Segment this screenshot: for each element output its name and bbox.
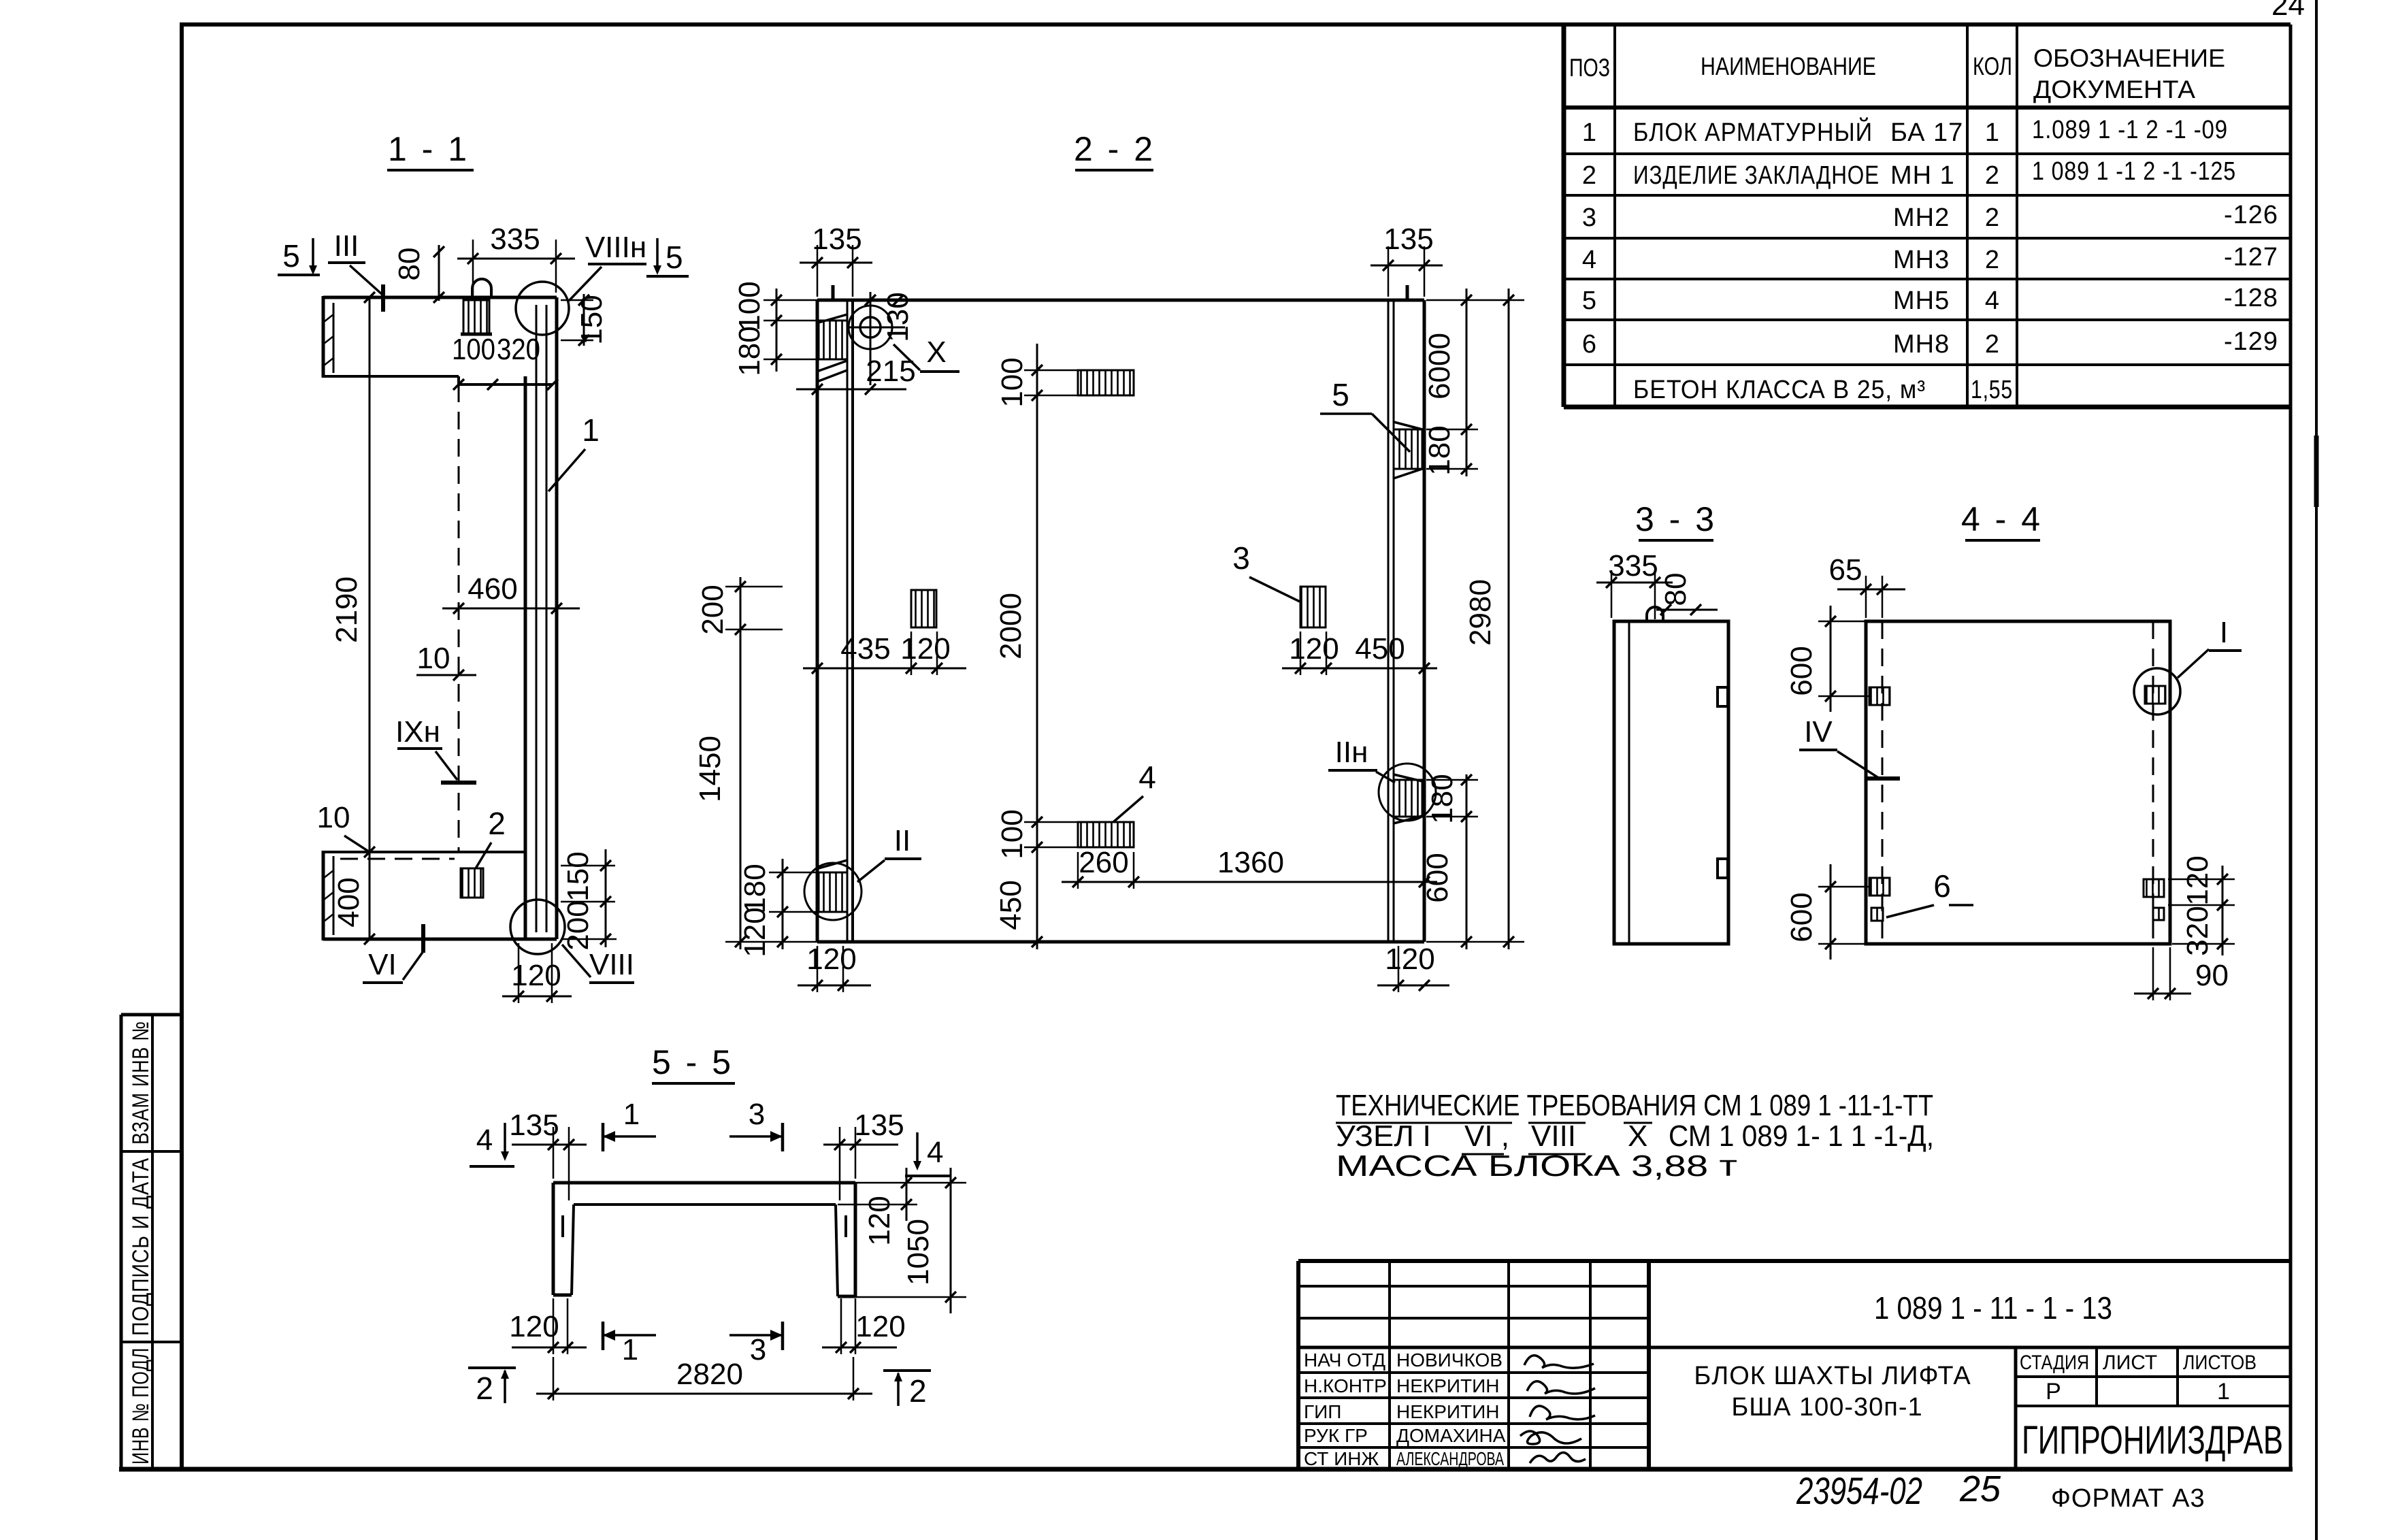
wall rebar line 1 — [536, 305, 538, 932]
svg-text:МН5: МН5 — [1893, 286, 1950, 315]
embedded plate MN1 top hatched — [463, 300, 489, 334]
svg-text:260: 260 — [1079, 846, 1128, 879]
svg-text:2: 2 — [909, 1373, 927, 1409]
svg-text:3: 3 — [1582, 203, 1597, 232]
svg-text:НЕКРИТИН: НЕКРИТИН — [1396, 1375, 1499, 1396]
sheet frame bottom border — [119, 1467, 2293, 1472]
table row 4 — [1582, 243, 2278, 274]
svg-text:БЛОК АРМАТУРНЫЙ: БЛОК АРМАТУРНЫЙ — [1633, 116, 1873, 147]
svg-text:НОВИЧКОВ: НОВИЧКОВ — [1396, 1349, 1503, 1371]
title block row a — [1298, 1285, 1649, 1288]
svg-text:180: 180 — [738, 864, 772, 913]
dim 150 right top — [561, 294, 608, 346]
dim 135 top left of 5-5 — [509, 1109, 587, 1200]
svg-text:5: 5 — [282, 238, 300, 274]
dim 460 — [442, 572, 580, 614]
svg-text:435: 435 — [840, 632, 890, 666]
svg-text:100: 100 — [996, 809, 1029, 859]
title block row 3 line — [1298, 1422, 1649, 1425]
svg-text:ФОРМАТ А3: ФОРМАТ А3 — [2051, 1484, 2205, 1513]
svg-text:135: 135 — [812, 223, 861, 256]
svg-text:24: 24 — [2271, 0, 2305, 22]
stadia header underline — [2016, 1375, 2291, 1378]
svg-text:НАИМЕНОВАНИЕ: НАИМЕНОВАНИЕ — [1701, 52, 1876, 80]
svg-text:2: 2 — [1985, 203, 2000, 232]
svg-text:4: 4 — [927, 1136, 943, 1169]
table row 1 — [1582, 116, 2228, 147]
underline of word — [1336, 1122, 1512, 1124]
4-4 detail circle I — [2134, 668, 2180, 715]
embedded plate bottom middle — [1078, 822, 1134, 847]
table row 5 — [1582, 284, 2278, 315]
svg-text:3 - 3: 3 - 3 — [1635, 500, 1717, 538]
svg-text:2000: 2000 — [994, 593, 1028, 659]
svg-text:5: 5 — [666, 240, 683, 275]
svg-text:2: 2 — [476, 1371, 493, 1406]
dim 100 320 — [452, 333, 558, 390]
svg-text:ТЕХНИЧЕСКИЕ ТРЕБОВАНИЯ СМ 1: ТЕХНИЧЕСКИЕ ТРЕБОВАНИЯ СМ 1 089 1 -11-1-… — [1336, 1089, 1933, 1122]
section mark 3 bottom — [729, 1322, 783, 1366]
svg-text:МН2: МН2 — [1893, 203, 1950, 232]
dim 100 180 left stack — [733, 281, 819, 376]
svg-text:III: III — [334, 229, 359, 263]
section mark 3 top — [729, 1098, 783, 1151]
dim 200 1450 left stack — [693, 577, 817, 949]
svg-text:4 - 4: 4 - 4 — [1961, 500, 2043, 538]
scan edge vertical line right — [2315, 0, 2318, 1540]
right wall inner line b — [1393, 300, 1395, 942]
dim 2820 bottom of 5-5 — [536, 1357, 872, 1400]
svg-text:5: 5 — [1332, 377, 1349, 412]
svg-text:600: 600 — [1785, 892, 1818, 942]
svg-text:II: II — [894, 824, 910, 857]
channel left leg inner — [572, 1205, 574, 1295]
top left embed wedge — [819, 314, 847, 381]
signature squiggle 1 — [1524, 1356, 1594, 1368]
section mark 5 top right — [646, 238, 689, 276]
label 4 with leader — [1113, 759, 1156, 822]
signature squiggle 5 — [1530, 1452, 1586, 1463]
svg-text:БЕТОН КЛАССА В 25, м³: БЕТОН КЛАССА В 25, м³ — [1633, 376, 1926, 404]
svg-text:100: 100 — [452, 333, 495, 366]
node II marker — [857, 824, 921, 882]
label 3 with leader — [1232, 540, 1300, 602]
dim 120 bottom left of 2-2 — [798, 943, 871, 992]
svg-text:НАЧ ОТД: НАЧ ОТД — [1304, 1349, 1385, 1371]
dim 135 top left — [800, 223, 872, 297]
svg-text:VI: VI — [368, 948, 397, 981]
sheet frame right border — [2289, 24, 2293, 1469]
top flange bottom edge step — [459, 376, 553, 384]
sheet frame top border — [180, 22, 2291, 27]
svg-text:120: 120 — [738, 907, 772, 957]
underline VI — [1462, 1153, 1504, 1156]
view 4-4 title underline — [1965, 539, 2040, 542]
signature squiggle 4 — [1520, 1431, 1581, 1444]
channel left leg cap — [553, 1294, 572, 1297]
channel right leg inner — [836, 1205, 838, 1296]
parts table row line 5 — [1564, 318, 2291, 321]
svg-text:МН 1: МН 1 — [1890, 161, 1955, 190]
svg-text:100: 100 — [733, 281, 766, 331]
embedded plate MN1 bottom cap — [461, 333, 492, 336]
svg-text:2: 2 — [1985, 330, 2000, 359]
svg-text:1: 1 — [622, 1333, 638, 1366]
svg-text:135: 135 — [509, 1109, 559, 1142]
sheet frame left border — [180, 24, 184, 1469]
svg-text:ПОДПИСЬ И ДАТА: ПОДПИСЬ И ДАТА — [128, 1158, 154, 1336]
svg-text:Н.КОНТР: Н.КОНТР — [1304, 1375, 1387, 1396]
svg-text:135: 135 — [1383, 223, 1433, 256]
title block col divider 3 — [1589, 1261, 1592, 1469]
node I marker — [2178, 616, 2242, 678]
node X marker — [893, 335, 959, 372]
panel bottom edge — [817, 940, 1424, 944]
svg-text:VI ,: VI , — [1464, 1119, 1509, 1153]
svg-text:СТАДИЯ: СТАДИЯ — [2020, 1351, 2089, 1374]
leader label 1 — [548, 412, 600, 491]
section mark 1 top — [603, 1098, 656, 1151]
top flange top edge — [323, 296, 557, 299]
svg-text:6000: 6000 — [1423, 333, 1456, 399]
svg-text:3: 3 — [749, 1098, 765, 1131]
dim 335 of 3-3 — [1596, 549, 1673, 619]
dim 80 of 3-3 rotated — [1656, 573, 1718, 615]
dashed interior corner line vertical — [458, 384, 460, 852]
parts table bottom line — [1564, 405, 2291, 410]
bottom flange left end outer — [322, 851, 325, 940]
detail circle bottom — [510, 900, 565, 954]
overline VI — [1462, 1122, 1504, 1124]
svg-text:90: 90 — [2195, 959, 2229, 992]
left stamp strip top line — [121, 1013, 182, 1017]
scan edge thick segment — [2314, 436, 2319, 507]
rebar tick top right — [1406, 285, 1409, 300]
dim 215 — [796, 355, 916, 395]
svg-text:БША 100-30п-1: БША 100-30п-1 — [1731, 1393, 1922, 1422]
dim 135 top right of 5-5 — [823, 1109, 904, 1200]
dim 6000 right top rotated — [1423, 289, 1478, 476]
section mark 2 bottom left — [468, 1368, 516, 1406]
node IIn circle bottom right — [1379, 764, 1436, 823]
channel outer top edge — [553, 1181, 855, 1185]
svg-text:2980: 2980 — [1464, 579, 1497, 646]
svg-text:120: 120 — [855, 1310, 905, 1343]
svg-text:ИЗДЕЛИЕ ЗАКЛАДНОЕ: ИЗДЕЛИЕ ЗАКЛАДНОЕ — [1633, 161, 1880, 190]
table row 3 — [1582, 201, 2278, 232]
channel right leg outer — [854, 1183, 857, 1296]
svg-text:1: 1 — [582, 412, 600, 448]
dim 10 lower left — [317, 801, 370, 852]
title block row 1 line — [1298, 1371, 1649, 1374]
left wall inner line a — [847, 300, 849, 942]
right wall inner line a — [1388, 300, 1390, 942]
4-4 small plate right — [2153, 908, 2164, 920]
dim 2980 right rotated — [1426, 289, 1524, 949]
left stamp strip outer line — [120, 1015, 123, 1469]
node VIIIn marker — [569, 231, 646, 301]
top flange bottom edge — [323, 375, 459, 378]
dim 435 120 mid left — [803, 632, 966, 675]
dim 90 bottom of 4-4 — [2134, 947, 2229, 1000]
svg-text:ОБОЗНАЧЕНИЕ: ОБОЗНАЧЕНИЕ — [2033, 44, 2225, 72]
label 6 with leader — [1886, 868, 1973, 917]
3-3 lifting loop — [1647, 607, 1663, 621]
svg-text:МН8: МН8 — [1893, 330, 1950, 359]
leg tick right — [844, 1215, 847, 1237]
svg-text:180: 180 — [733, 326, 766, 376]
parts table row line 6 — [1564, 363, 2291, 366]
svg-text:ГИП: ГИП — [1304, 1401, 1341, 1422]
dim 120 bottom right of 5-5 — [822, 1298, 906, 1354]
4-4 dashed line right — [2152, 621, 2154, 944]
svg-text:600: 600 — [1785, 646, 1818, 695]
right wall outer face — [1423, 300, 1426, 942]
svg-text:КОЛ: КОЛ — [1973, 52, 2012, 80]
dim 135 top right — [1371, 223, 1443, 297]
svg-text:23954-02: 23954-02 — [1796, 1469, 1922, 1512]
svg-text:3: 3 — [1232, 540, 1250, 576]
dim 10 middle — [416, 642, 476, 681]
overline X — [1624, 1122, 1652, 1124]
title block row 4 line — [1298, 1446, 1649, 1449]
svg-text:БЛОК ШАХТЫ ЛИФТА: БЛОК ШАХТЫ ЛИФТА — [1694, 1362, 1971, 1390]
3-3 embed mark lower — [1718, 859, 1728, 878]
view 5-5 title underline — [652, 1082, 735, 1085]
svg-text:5 - 5: 5 - 5 — [652, 1043, 734, 1081]
svg-text:-128: -128 — [2224, 284, 2278, 312]
embedded plate mid left — [911, 590, 936, 627]
svg-text:5: 5 — [1582, 286, 1597, 315]
svg-text:4: 4 — [1582, 246, 1597, 274]
svg-text:80: 80 — [393, 248, 426, 281]
svg-text:120: 120 — [2181, 855, 2214, 905]
svg-text:МАССА БЛОКА 3,88 т: МАССА БЛОКА 3,88 т — [1336, 1149, 1737, 1183]
lifting loop top — [472, 279, 491, 298]
embedded plate top middle — [1078, 370, 1134, 395]
svg-text:4: 4 — [1138, 759, 1156, 795]
svg-text:2 - 2: 2 - 2 — [1074, 130, 1155, 168]
detail circle top right — [516, 282, 569, 335]
title block mid line — [1298, 1346, 2291, 1349]
svg-text:450: 450 — [994, 880, 1028, 930]
stadia row bottom — [2016, 1405, 2291, 1407]
svg-text:3: 3 — [750, 1333, 766, 1366]
svg-text:120: 120 — [863, 1196, 896, 1245]
svg-text:120: 120 — [509, 1310, 559, 1343]
title block row b — [1298, 1317, 1649, 1320]
title block row 2 line — [1298, 1396, 1649, 1399]
svg-text:2190: 2190 — [330, 576, 363, 643]
left wall outer face — [816, 300, 819, 942]
svg-text:100: 100 — [996, 357, 1029, 407]
view 1-1 title underline — [387, 169, 474, 171]
dim 600 bottom left of 4-4 — [1785, 864, 1869, 960]
dim 120 450 mid right — [1282, 632, 1437, 675]
svg-text:120: 120 — [806, 943, 856, 976]
node II circle bottom left — [804, 860, 861, 920]
dim 120 bottom right of 2-2 — [1377, 943, 1449, 992]
parts table row line 2 — [1564, 194, 2291, 197]
svg-text:4: 4 — [476, 1124, 493, 1157]
svg-text:6: 6 — [1933, 868, 1951, 904]
svg-text:200: 200 — [696, 585, 729, 634]
svg-text:215: 215 — [866, 355, 915, 388]
stadia col divider 2 — [2176, 1347, 2179, 1406]
dim 120 bottom left of 5-5 — [509, 1298, 587, 1354]
dim 600 top left of 4-4 — [1785, 606, 1869, 712]
parts table left edge — [1562, 24, 1566, 407]
svg-text:IV: IV — [1804, 715, 1833, 749]
svg-text:1: 1 — [1582, 118, 1597, 147]
svg-text:180: 180 — [1423, 425, 1456, 475]
section mark 5 top left — [278, 238, 320, 275]
dim 260 1360 — [1062, 846, 1437, 889]
4-4 plate left upper — [1869, 687, 1890, 705]
parts table row line 3 — [1564, 237, 2291, 240]
dim 120 right of 5-5 rotated — [838, 1168, 917, 1246]
dims 120 320 right of 4-4 — [2168, 855, 2235, 955]
svg-text:СМ 1 089 1- 1 1 -1-Д,: СМ 1 089 1- 1 1 -1-Д, — [1669, 1119, 1934, 1153]
svg-text:БА 17: БА 17 — [1890, 118, 1963, 147]
svg-text:450: 450 — [1355, 632, 1405, 666]
left stamp strip divider 1 — [121, 1150, 182, 1153]
svg-text:10: 10 — [317, 801, 350, 834]
svg-text:135: 135 — [854, 1109, 904, 1142]
svg-text:МН3: МН3 — [1893, 246, 1950, 274]
node III marker — [328, 229, 383, 312]
svg-text:ДОКУМЕНТА: ДОКУМЕНТА — [2033, 76, 2195, 103]
channel left leg outer — [552, 1183, 555, 1295]
dim 120 bottom — [502, 943, 572, 1003]
svg-text:1360: 1360 — [1217, 846, 1284, 879]
svg-text:IXн: IXн — [395, 715, 440, 749]
svg-text:ПОЗ: ПОЗ — [1569, 54, 1610, 82]
parts table col NAIMENOVANIE divider — [1966, 24, 1969, 407]
svg-text:1450: 1450 — [693, 736, 727, 802]
svg-text:120: 120 — [900, 632, 950, 666]
svg-text:335: 335 — [490, 223, 540, 256]
title block outer left edge — [1296, 1261, 1300, 1469]
title block divider main — [1647, 1261, 1651, 1469]
dim 600 right rotated — [1421, 774, 1472, 949]
svg-text:НЕКРИТИН: НЕКРИТИН — [1396, 1401, 1499, 1422]
svg-text:ЛИСТОВ: ЛИСТОВ — [2183, 1351, 2256, 1374]
svg-text:АЛЕКСАНДРОВА: АЛЕКСАНДРОВА — [1396, 1448, 1504, 1469]
svg-text:1.089 1 -1 2 -1 -09: 1.089 1 -1 2 -1 -09 — [2032, 116, 2228, 144]
svg-text:X: X — [926, 335, 946, 369]
dim 100 bottom middle rotated — [996, 809, 1082, 859]
parts table header bottom line — [1564, 105, 2291, 110]
view 3-3 title underline — [1639, 539, 1713, 542]
view 2-2 title underline — [1075, 169, 1153, 171]
svg-text:-127: -127 — [2224, 243, 2278, 272]
svg-text:25: 25 — [1959, 1469, 2001, 1509]
leader label 2 — [476, 806, 506, 868]
label 5 with leader — [1320, 377, 1410, 452]
3-3 body rectangle — [1614, 621, 1728, 944]
left wall inner line b — [851, 300, 854, 942]
section mark 4 top right — [905, 1132, 950, 1176]
table row 6 — [1582, 327, 2278, 359]
svg-text:1050: 1050 — [902, 1219, 935, 1285]
underline VIII — [1528, 1153, 1586, 1156]
dim 130 rotated — [817, 292, 994, 342]
node VI marker — [363, 924, 423, 983]
channel inner top edge — [574, 1203, 836, 1206]
dim 65 of 4-4 — [1829, 553, 1905, 618]
panel top edge — [817, 299, 1424, 302]
title block col divider 2 — [1507, 1261, 1510, 1469]
channel right leg cap — [838, 1295, 855, 1298]
section mark 1 bottom — [603, 1322, 656, 1366]
signature squiggle 2 — [1527, 1381, 1595, 1394]
table row concrete — [1633, 376, 2013, 404]
wall rebar line 2 — [546, 305, 548, 932]
right wall embed wedge top — [1394, 422, 1422, 478]
4-4 plate left lower — [1869, 878, 1890, 896]
dim 180 right lower rotated — [1426, 774, 1478, 823]
svg-text:X: X — [1628, 1119, 1647, 1153]
dim 2190 vertical — [330, 292, 375, 945]
3-3 inner edge line — [1628, 621, 1630, 944]
svg-text:-129: -129 — [2224, 327, 2278, 356]
title block top line — [1298, 1259, 2291, 1263]
svg-text:ВЗАМ ИНВ №: ВЗАМ ИНВ № — [128, 1021, 154, 1145]
title block col divider 1 — [1388, 1261, 1391, 1469]
signature squiggle 3 — [1530, 1406, 1595, 1420]
svg-text:ГИПРОНИИЗДРАВ: ГИПРОНИИЗДРАВ — [2022, 1418, 2283, 1462]
section mark 2 bottom right — [883, 1371, 931, 1409]
svg-text:120: 120 — [1289, 632, 1339, 666]
svg-text:6: 6 — [1582, 330, 1597, 359]
svg-text:65: 65 — [1829, 553, 1862, 587]
svg-text:-126: -126 — [2224, 201, 2278, 229]
svg-text:2: 2 — [488, 806, 506, 841]
dim 150 200 bottom right — [561, 849, 617, 951]
node IV marker — [1799, 715, 1900, 779]
parts table row line 1 — [1564, 152, 2291, 155]
detail circle with rebar section top left — [849, 292, 905, 385]
svg-text:1: 1 — [1985, 118, 2000, 147]
svg-text:80: 80 — [1659, 573, 1692, 606]
svg-text:4: 4 — [1985, 286, 2000, 315]
svg-text:ИНВ № ПОДЛ: ИНВ № ПОДЛ — [128, 1347, 154, 1464]
svg-text:УЗЕЛ I: УЗЕЛ I — [1336, 1119, 1431, 1153]
parts table col KOL divider — [2016, 24, 2018, 407]
svg-text:1 089 1 -1 2 -1 -125: 1 089 1 -1 2 -1 -125 — [2032, 157, 2236, 186]
svg-text:320: 320 — [497, 333, 540, 366]
svg-text:2: 2 — [1985, 246, 2000, 274]
parts table row line 4 — [1564, 278, 2291, 280]
svg-text:600: 600 — [1421, 853, 1454, 902]
dim 335 top — [457, 223, 575, 295]
svg-text:150: 150 — [561, 851, 595, 901]
svg-text:120: 120 — [1385, 943, 1434, 976]
left stamp strip divider column — [151, 1015, 154, 1469]
svg-text:Р: Р — [2046, 1379, 2062, 1405]
svg-text:ДОМАХИНА: ДОМАХИНА — [1396, 1425, 1506, 1446]
bottom flange left end inner break — [324, 856, 333, 935]
embedded plate pos2 hatched — [461, 868, 483, 898]
3-3 embed mark upper — [1718, 687, 1728, 706]
4-4 body rectangle — [1866, 621, 2170, 944]
embedded plate mid right — [1300, 587, 1326, 627]
dim 100 top middle rotated — [996, 344, 1082, 949]
svg-text:I: I — [2220, 616, 2228, 649]
dim 180 120 bottom left stack — [738, 859, 819, 957]
svg-text:400: 400 — [332, 877, 365, 927]
